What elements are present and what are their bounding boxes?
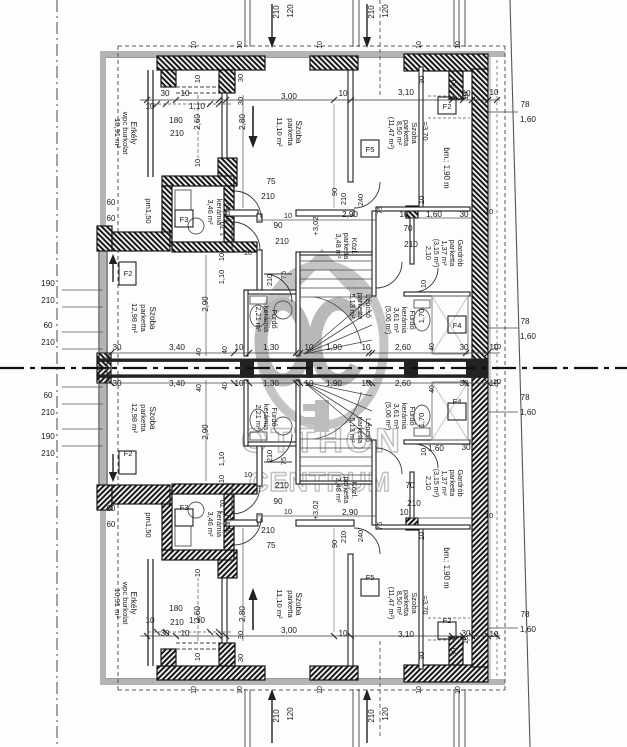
wall kozl-gardrob [372, 440, 376, 525]
swing tick x=219 [216, 629, 222, 635]
svg-text:1,70: 1,70 [417, 413, 426, 427]
terrace edge band top [100, 51, 505, 57]
svg-text:12,98 m²: 12,98 m² [130, 403, 139, 433]
F3 window box [175, 509, 193, 526]
wall szoba11 bottom left [226, 520, 258, 526]
band tick x=372 [369, 380, 375, 386]
svg-text:70: 70 [403, 224, 413, 233]
svg-text:=3,70: =3,70 [421, 595, 430, 614]
svg-text:1,37 m²: 1,37 m² [440, 470, 449, 496]
F4 window box [448, 316, 466, 333]
svg-text:F3: F3 [180, 215, 189, 224]
F2 roof window right box [438, 97, 456, 114]
dim v 2.80 [242, 95, 244, 208]
wall szoba12-hall lower [257, 250, 262, 292]
balcony door dashed1 [176, 648, 219, 650]
svg-text:210: 210 [261, 192, 275, 201]
svg-text:120: 120 [381, 4, 390, 18]
top band inner face [106, 678, 472, 680]
svg-text:3,61 m²: 3,61 m² [392, 307, 401, 333]
svg-text:75: 75 [279, 271, 288, 279]
wall bath346 right [224, 484, 234, 550]
dim tick x=219 [216, 633, 222, 639]
svg-text:pm1,50: pm1,50 [144, 512, 153, 537]
swing tick x=157 [154, 101, 160, 107]
door gardrob swing [414, 444, 438, 468]
svg-text:2,10: 2,10 [424, 476, 433, 490]
stair winder fan [304, 382, 372, 440]
svg-text:30: 30 [449, 80, 458, 88]
unit geometry top half [62, 0, 505, 368]
band tick x=488 [485, 350, 491, 356]
svg-text:210: 210 [339, 531, 348, 543]
svg-text:60: 60 [43, 391, 53, 400]
svg-text:210: 210 [367, 709, 376, 723]
wall right outer [472, 368, 488, 667]
projection line bottom x=359 [358, 689, 360, 747]
svg-text:Szoba: Szoba [148, 306, 157, 330]
projection line top x=459 [458, 0, 460, 47]
svg-text:1,90: 1,90 [326, 343, 342, 352]
svg-text:90: 90 [330, 188, 339, 196]
wall szoba11-szoba85 [348, 70, 353, 182]
leader 78 mid-bot [488, 411, 518, 413]
roof outline dashed left [117, 368, 119, 690]
svg-text:2,80: 2,80 [238, 606, 247, 622]
svg-text:210: 210 [261, 526, 275, 535]
svg-text:60: 60 [107, 520, 116, 529]
stair tread 1 [300, 474, 372, 476]
svg-text:3,61 m²: 3,61 m² [392, 403, 401, 429]
svg-text:30: 30 [236, 654, 245, 662]
F3 window box [175, 210, 193, 227]
svg-text:210: 210 [272, 5, 281, 19]
wall szoba12-hall upper [257, 514, 262, 522]
svg-text:10,91 m²: 10,91 m² [113, 588, 122, 618]
svg-text:30: 30 [417, 652, 426, 660]
door hall-stair swing [264, 434, 292, 462]
svg-text:30: 30 [160, 89, 170, 98]
projection line bottom x=245 [244, 689, 246, 747]
svg-text:3,48 m²: 3,48 m² [334, 477, 343, 503]
svg-text:10: 10 [191, 41, 198, 49]
wc1 bowl [250, 409, 266, 431]
stair tread 4 [300, 287, 372, 289]
svg-text:10: 10 [455, 41, 462, 49]
svg-text:10: 10 [244, 470, 252, 479]
svg-text:210: 210 [272, 709, 281, 723]
balcony door dashed2 [176, 642, 219, 644]
svg-text:3,00: 3,00 [281, 92, 297, 101]
text layer [41, 4, 536, 723]
svg-text:10: 10 [493, 377, 501, 386]
svg-text:F5: F5 [366, 573, 375, 582]
svg-text:10: 10 [489, 630, 499, 639]
dormer projection dashed [379, 638, 381, 736]
svg-text:Fürdő: Fürdő [224, 514, 233, 533]
band tick x=296 [293, 380, 299, 386]
svg-text:1,60: 1,60 [520, 408, 536, 417]
svg-text:3,46 m²: 3,46 m² [206, 511, 215, 537]
tick line balcony [148, 103, 232, 105]
wall szoba11-szoba85 [348, 554, 353, 666]
band dim line [97, 352, 500, 354]
svg-text:F4: F4 [453, 321, 462, 330]
svg-text:10: 10 [237, 686, 244, 694]
F2 dashes a [428, 95, 470, 97]
svg-text:F2: F2 [443, 616, 452, 625]
dim h gardrob [410, 217, 472, 219]
svg-text:210: 210 [41, 408, 55, 417]
dim tick x=226 [223, 633, 229, 639]
balcony wall line2 [152, 70, 154, 177]
svg-text:2,90: 2,90 [201, 424, 210, 440]
svg-text:40: 40 [222, 346, 229, 354]
left leader y=349 [62, 348, 103, 350]
svg-text:10: 10 [217, 475, 226, 483]
dim tick x=147 [144, 97, 150, 103]
svg-text:120: 120 [286, 4, 295, 18]
dim line top [140, 99, 500, 101]
wall top segment A [310, 666, 358, 680]
wall gardrob pier [406, 518, 418, 530]
svg-text:10: 10 [217, 253, 226, 261]
svg-text:70: 70 [405, 481, 415, 490]
entry arrow down [252, 106, 254, 138]
svg-text:210: 210 [407, 499, 421, 508]
svg-text:40: 40 [196, 348, 203, 356]
svg-text:F2: F2 [124, 269, 133, 278]
svg-text:10: 10 [461, 92, 470, 100]
svg-text:1,90: 1,90 [326, 379, 342, 388]
balcony wall line1 [147, 559, 149, 666]
wall vert balcony-szoba lower [218, 550, 237, 578]
balcony door dashed2 [176, 92, 219, 94]
projection line top x=465 [464, 0, 466, 47]
svg-text:10: 10 [461, 636, 470, 644]
svg-text:pm1,50: pm1,50 [144, 198, 153, 223]
svg-text:90: 90 [273, 497, 283, 506]
szoba outer wall face2 [106, 251, 108, 368]
wall bath221 left [244, 380, 248, 446]
svg-text:1,30: 1,30 [263, 379, 279, 388]
svg-text:2,60: 2,60 [193, 114, 202, 130]
stair tread 3 [300, 278, 372, 280]
band tick x=369 [366, 350, 372, 356]
svg-text:(11,47 m²): (11,47 m²) [387, 117, 396, 150]
wall stair top [300, 252, 372, 255]
svg-text:1,10: 1,10 [217, 270, 226, 284]
dim tick x=463 [460, 97, 466, 103]
stair walkline arc [314, 392, 361, 439]
svg-text:75: 75 [279, 457, 288, 465]
svg-text:+3,02: +3,02 [311, 500, 320, 519]
dim v 2.60 [197, 95, 199, 158]
balcony wall line2 [152, 559, 154, 666]
roof outline dashed right [504, 46, 506, 368]
left leader y=290 [62, 445, 103, 447]
svg-text:10: 10 [399, 508, 409, 517]
property line vertical dash-dot [56, 0, 58, 747]
right facade thin line [489, 368, 491, 679]
band tick x=249 [246, 350, 252, 356]
svg-text:78: 78 [520, 100, 530, 109]
wall szoba12-hall lower [257, 444, 262, 486]
svg-text:10: 10 [489, 88, 499, 97]
svg-text:60: 60 [107, 214, 116, 223]
svg-text:10: 10 [416, 41, 423, 49]
svg-text:10: 10 [237, 41, 244, 49]
roof outline dashed left [117, 46, 119, 368]
svg-text:5,13 m²: 5,13 m² [348, 293, 357, 319]
projection line bottom x=250 [249, 689, 251, 747]
right facade thin line [489, 57, 491, 368]
svg-text:180: 180 [169, 116, 183, 125]
svg-text:10: 10 [284, 507, 292, 516]
svg-text:1,70: 1,70 [218, 500, 227, 514]
dim v szoba12 [205, 380, 207, 481]
wall szoba11 bottom left [226, 210, 258, 216]
svg-text:78: 78 [520, 393, 530, 402]
svg-text:30: 30 [112, 343, 122, 352]
wall bath346 left [162, 490, 172, 550]
svg-text:1,10: 1,10 [217, 452, 226, 466]
watermark roof chevron [276, 256, 368, 304]
svg-text:30: 30 [236, 74, 245, 82]
wall szoba11 bottom right [296, 210, 354, 216]
svg-text:12,98 m²: 12,98 m² [130, 303, 139, 333]
svg-text:(5,06 m²): (5,06 m²) [384, 306, 391, 334]
dim tick x=463 [460, 633, 466, 639]
watermark o glyph [261, 304, 305, 380]
door szoba12 leaf [231, 222, 233, 250]
svg-text:3,10: 3,10 [398, 630, 414, 639]
svg-text:75: 75 [266, 541, 276, 550]
svg-text:10: 10 [193, 653, 202, 661]
wall bath346 right [224, 186, 234, 252]
svg-text:190: 190 [41, 432, 55, 441]
svg-text:60: 60 [107, 504, 116, 513]
svg-text:75: 75 [266, 177, 276, 186]
svg-text:10: 10 [338, 629, 348, 638]
svg-text:210: 210 [170, 129, 184, 138]
F5 window box [361, 140, 379, 157]
svg-text:30: 30 [417, 76, 426, 84]
svg-text:5,13 m²: 5,13 m² [348, 417, 357, 443]
svg-text:90: 90 [330, 540, 339, 548]
F2 dashes b [428, 617, 470, 619]
dim line top [140, 635, 500, 637]
svg-text:60: 60 [107, 198, 116, 207]
svg-text:210: 210 [41, 296, 55, 305]
svg-text:180: 180 [169, 604, 183, 613]
wall left jog pier [97, 226, 112, 251]
projection line top x=454 [453, 0, 455, 47]
left leader y=307 [62, 428, 103, 430]
dim tick x=334 [331, 633, 337, 639]
svg-text:30: 30 [236, 97, 245, 105]
stair tread 1 [300, 260, 372, 262]
wall gardrob left [410, 472, 414, 518]
svg-text:2,60: 2,60 [193, 606, 202, 622]
top band inner face [106, 57, 472, 59]
svg-text:Szoba: Szoba [410, 122, 419, 144]
wall bath221 top [244, 290, 300, 294]
svg-text:Szoba: Szoba [410, 592, 419, 614]
wall top segment B [404, 665, 488, 682]
stair tread 2 [300, 269, 372, 271]
glass plane dashed right [496, 60, 498, 368]
band tick x=111 [108, 350, 114, 356]
dim tick x=176 [173, 633, 179, 639]
svg-text:10: 10 [244, 248, 252, 257]
svg-text:210: 210 [275, 481, 289, 490]
wall gardrob top [376, 525, 470, 529]
wall bath346 left [162, 186, 172, 246]
door szoba85 swing [354, 528, 380, 554]
dim h kozl [258, 515, 376, 517]
svg-text:30: 30 [461, 443, 471, 452]
svg-text:75: 75 [375, 206, 384, 214]
wall center pier left [97, 353, 111, 368]
wall szoba85 knee [419, 67, 423, 207]
F2 dashes a [428, 639, 470, 641]
svg-text:240: 240 [356, 194, 365, 206]
svg-text:10: 10 [416, 686, 423, 694]
wc1 tank [250, 432, 267, 440]
svg-text:210: 210 [265, 274, 274, 286]
swing tick x=219 [216, 101, 222, 107]
watermark key stem [315, 400, 329, 432]
stair tread 3 [300, 456, 372, 458]
svg-text:+3,02: +3,02 [311, 216, 320, 235]
stair tread 5 [300, 296, 372, 298]
svg-text:90: 90 [273, 221, 283, 230]
left leader y=290 [62, 289, 103, 291]
door hall-stair leaf [264, 461, 292, 463]
dim tick x=147 [144, 633, 150, 639]
watermark ring [260, 265, 384, 425]
basin2 [188, 218, 204, 234]
wall gardrob bottom [404, 292, 470, 296]
svg-text:2,90: 2,90 [342, 508, 358, 517]
szoba outer wall face1 [98, 368, 100, 485]
wall vert balcony-szoba lower [218, 158, 237, 186]
svg-text:10: 10 [361, 379, 371, 388]
svg-text:11,10 m²: 11,10 m² [275, 589, 284, 619]
wall left jog pier [97, 485, 112, 510]
svg-text:60: 60 [43, 321, 53, 330]
shower tray [175, 190, 191, 210]
svg-text:bm.: 1,90 m: bm.: 1,90 m [442, 147, 451, 188]
dim tick x=334 [331, 97, 337, 103]
left leader y=332 [62, 403, 103, 405]
wall szoba11 left lower [222, 578, 227, 643]
svg-text:F3: F3 [180, 503, 189, 512]
band tick x=249 [246, 380, 252, 386]
svg-text:210: 210 [367, 5, 376, 19]
svg-text:1,10: 1,10 [189, 102, 205, 111]
wall bath346 top [162, 176, 234, 186]
band tick x=488 [485, 380, 491, 386]
svg-text:10: 10 [485, 511, 493, 520]
svg-text:210: 210 [275, 237, 289, 246]
wall bath221 left [244, 290, 248, 356]
wall left jog band [112, 232, 170, 251]
svg-text:10: 10 [493, 342, 501, 351]
svg-text:30: 30 [236, 631, 245, 639]
wall top segment B [404, 54, 488, 71]
svg-text:F2: F2 [124, 449, 133, 458]
svg-text:75: 75 [375, 522, 384, 530]
projection line top x=250 [249, 0, 251, 47]
leader 78 mid-top [488, 327, 518, 329]
F2 dashes b [428, 117, 470, 119]
swing tick x=210 [207, 629, 213, 635]
svg-text:2,90: 2,90 [201, 296, 210, 312]
door bath346 swing [234, 191, 261, 218]
svg-text:(11,47 m²): (11,47 m²) [387, 587, 396, 620]
svg-text:Fürdő: Fürdő [224, 202, 233, 221]
svg-text:2,90: 2,90 [342, 210, 358, 219]
leader 78 bottom [488, 627, 518, 629]
wall bath346 bottom [172, 484, 257, 494]
door szoba12 swing [232, 222, 260, 250]
dim arrow down x=367 [366, 4, 368, 40]
dim h gardrob [410, 517, 472, 519]
wall gardrob bottom [404, 440, 470, 444]
left leader y=307 [62, 306, 103, 308]
svg-text:10: 10 [417, 532, 426, 540]
terrace edge band top [100, 679, 505, 685]
svg-text:1,60: 1,60 [520, 332, 536, 341]
party wall pier x=404 [404, 359, 418, 378]
svg-text:10: 10 [455, 686, 462, 694]
band tick x=234 [231, 350, 237, 356]
svg-text:78: 78 [520, 317, 530, 326]
szoba outer wall face2 [106, 368, 108, 485]
svg-text:10: 10 [485, 207, 493, 216]
svg-text:210: 210 [339, 193, 348, 205]
party wall pier x=240 [240, 359, 254, 378]
svg-text:2,60: 2,60 [395, 379, 411, 388]
svg-text:parketta: parketta [286, 590, 295, 618]
wall balcony top step [161, 649, 176, 666]
wc2 bowl [414, 405, 430, 427]
svg-text:3,40: 3,40 [169, 379, 185, 388]
dim arrow up x=272 bottom [271, 697, 273, 743]
svg-text:F5: F5 [366, 145, 375, 154]
band tick x=234 [231, 380, 237, 386]
projection line bottom x=454 [453, 689, 455, 747]
site boundary slanted [510, 0, 530, 747]
band tick x=300 [297, 350, 303, 356]
wc2 tank [414, 428, 430, 436]
tick line balcony [148, 631, 232, 633]
dormer projection dashed [379, 0, 381, 98]
svg-text:30: 30 [112, 379, 122, 388]
band tick x=300 [297, 380, 303, 386]
dim tick x=452 [449, 633, 455, 639]
F4 window box [448, 403, 466, 420]
swing tick x=157 [154, 629, 160, 635]
roof outline dashed top [118, 45, 505, 47]
wall top segment A [310, 56, 358, 70]
F2 window left box [119, 262, 136, 285]
dim tick x=226 [223, 97, 229, 103]
svg-text:1,60: 1,60 [520, 115, 536, 124]
party wall top bar [97, 359, 488, 362]
